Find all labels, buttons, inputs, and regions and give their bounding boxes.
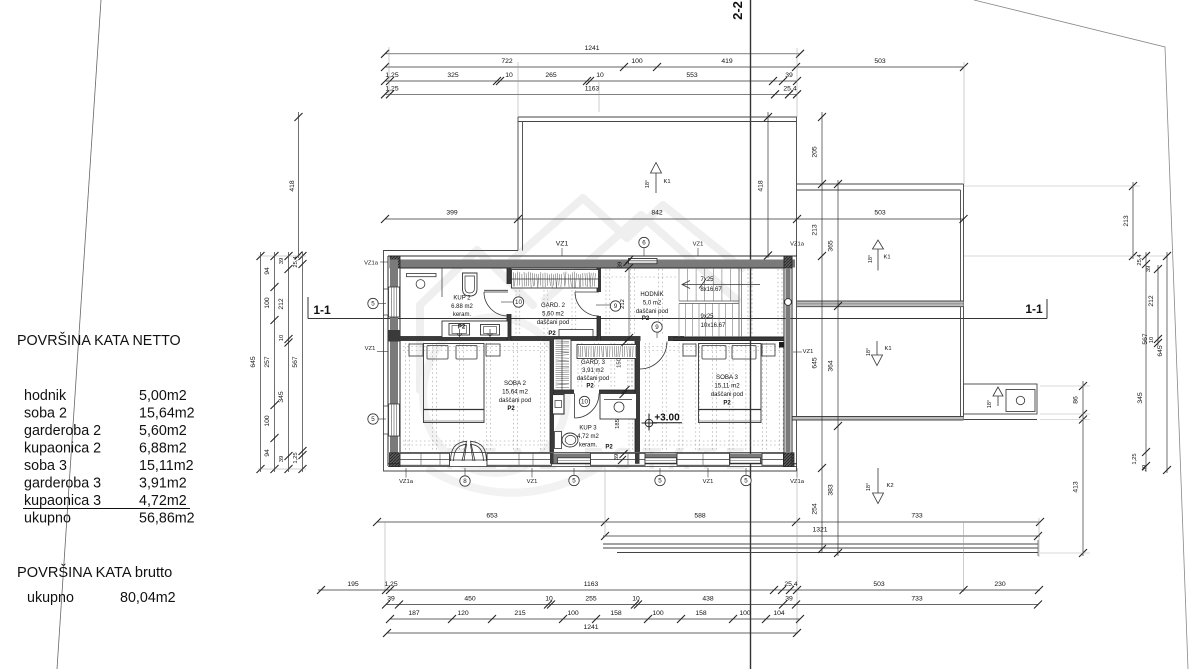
window box bottom 5 [762, 453, 784, 465]
svg-text:5,60 m2: 5,60 m2 [542, 312, 564, 318]
parcel boundary left [57, 0, 101, 669]
svg-text:SOBA 3: SOBA 3 [716, 374, 739, 381]
svg-text:K2: K2 [886, 483, 893, 489]
svg-text:25,4: 25,4 [784, 581, 797, 588]
column top-left [390, 256, 400, 268]
svg-text:keram.: keram. [453, 312, 472, 318]
svg-text:413: 413 [1073, 481, 1080, 493]
dim column left 94/100/257/100/94 [274, 252, 276, 472]
window box bottom 2 [487, 453, 552, 465]
column top-right [784, 256, 792, 268]
wall stairs/SOBA3 horizontal [673, 337, 784, 341]
door SOBA3 with arc [640, 342, 668, 370]
svg-text:15,11m2: 15,11m2 [139, 458, 194, 474]
eaves outline around house [384, 117, 797, 471]
svg-text:daščani pod: daščani pod [499, 398, 531, 404]
svg-text:P2: P2 [458, 325, 466, 331]
svg-text:VZ1a: VZ1a [790, 242, 805, 248]
svg-text:P2: P2 [586, 384, 594, 390]
svg-text:100: 100 [631, 58, 643, 65]
svg-text:588: 588 [694, 513, 706, 520]
svg-text:56,86m2: 56,86m2 [139, 511, 195, 527]
svg-text:VZ1: VZ1 [693, 242, 704, 248]
svg-text:HODNIK: HODNIK [640, 292, 663, 298]
svg-text:1163: 1163 [584, 581, 599, 588]
svg-text:187: 187 [408, 610, 420, 617]
svg-text:KUP 2: KUP 2 [453, 296, 471, 302]
dim 39 top wall [624, 258, 632, 266]
svg-text:39: 39 [279, 258, 285, 264]
svg-text:POVRŠINA KATA brutto: POVRŠINA KATA brutto [17, 564, 172, 581]
svg-text:86: 86 [1073, 396, 1080, 404]
svg-text:VZ1a: VZ1a [399, 479, 414, 485]
wall GARD2/HODNIK to stairs horizontal [513, 337, 641, 341]
window strip bottom 1 [558, 458, 591, 463]
circled 5 window left lower [368, 414, 378, 424]
window top wall [629, 259, 658, 264]
svg-text:15,64 m2: 15,64 m2 [502, 389, 528, 396]
svg-text:418: 418 [758, 180, 765, 192]
svg-text:10: 10 [545, 596, 553, 603]
svg-text:1163: 1163 [585, 85, 600, 92]
svg-text:39: 39 [618, 262, 624, 268]
svg-text:P2: P2 [605, 445, 613, 451]
svg-text:GARD. 2: GARD. 2 [541, 303, 566, 309]
toilet KUP2 [463, 273, 478, 296]
svg-text:3,91m2: 3,91m2 [139, 476, 187, 492]
svg-text:213: 213 [1123, 215, 1130, 227]
circled 9 door GARD2 [610, 301, 620, 311]
floor board dashed lines [403, 269, 783, 451]
svg-text:10: 10 [1149, 337, 1155, 343]
svg-text:4,72 m2: 4,72 m2 [577, 434, 599, 440]
svg-text:645: 645 [250, 356, 257, 368]
dim 418 right [767, 112, 769, 258]
door KUP2 with arc [484, 289, 508, 291]
wall stub D at bottom wall [550, 453, 554, 464]
svg-text:18°: 18° [987, 400, 993, 408]
svg-text:9x25: 9x25 [700, 314, 714, 320]
svg-text:POVRŠINA KATA NETTO: POVRŠINA KATA NETTO [17, 332, 181, 349]
bottom dim row C 187/120/215/... [390, 618, 800, 620]
svg-text:6,88m2: 6,88m2 [139, 441, 187, 457]
section line 1-1 [308, 318, 1047, 320]
svg-text:VZ1: VZ1 [527, 479, 538, 485]
underline kupaonica 3 [23, 508, 190, 510]
svg-text:1321: 1321 [812, 527, 827, 534]
svg-text:6: 6 [642, 240, 646, 247]
svg-text:10: 10 [505, 72, 513, 79]
svg-text:7x25: 7x25 [700, 277, 714, 283]
svg-text:653: 653 [486, 513, 498, 520]
svg-text:VZ1: VZ1 [365, 346, 376, 352]
svg-text:2-2: 2-2 [730, 1, 745, 20]
svg-text:345: 345 [278, 391, 285, 403]
svg-text:80,04m2: 80,04m2 [120, 590, 176, 606]
bottom dim row D 1241 [387, 632, 797, 634]
column left middle [388, 330, 400, 342]
svg-text:ukupno: ukupno [27, 590, 74, 606]
svg-text:1-1: 1-1 [313, 303, 331, 317]
svg-text:25,4: 25,4 [783, 85, 796, 92]
dim 185 kup3 [620, 390, 628, 398]
svg-text:645: 645 [812, 357, 819, 369]
svg-text:8: 8 [463, 478, 467, 485]
wall KUP2/SOBA2 horizontal [400, 337, 513, 341]
svg-text:garderoba 2: garderoba 2 [24, 423, 101, 439]
svg-text:567: 567 [1142, 333, 1149, 345]
svg-text:438: 438 [702, 596, 714, 603]
vanity counter KUP2 [442, 321, 508, 338]
svg-text:1241: 1241 [584, 45, 599, 52]
dashed lines right of stairs [748, 269, 782, 336]
svg-text:39: 39 [387, 596, 395, 603]
svg-text:daščani pod: daščani pod [711, 392, 743, 398]
svg-text:KUP 3: KUP 3 [579, 426, 597, 432]
svg-text:364: 364 [828, 360, 835, 372]
column bottom-right [784, 453, 795, 467]
wall SOBA2|GARD3 vertical [550, 341, 554, 452]
roof arrow K1 right-up [873, 240, 884, 271]
svg-text:212: 212 [620, 299, 626, 309]
dim 150 gard3 [622, 338, 630, 346]
dim 399/842/503 above plan [385, 218, 964, 220]
dim column left 645 [260, 252, 262, 472]
svg-text:18°: 18° [868, 255, 874, 263]
dim 212 hodnik [628, 268, 630, 338]
wall top [390, 260, 795, 268]
shelf rect GARD2 [559, 330, 593, 337]
svg-text:VZ1a: VZ1a [364, 261, 379, 267]
svg-text:4,72m2: 4,72m2 [139, 493, 187, 509]
roof outline upper-left rectangle [518, 117, 797, 251]
svg-text:1,25: 1,25 [385, 85, 398, 92]
svg-text:SOBA 2: SOBA 2 [504, 380, 527, 387]
svg-text:1,25: 1,25 [385, 72, 398, 79]
svg-text:18°: 18° [866, 348, 872, 356]
svg-text:10: 10 [596, 72, 604, 79]
dim far right column C [1166, 252, 1168, 473]
svg-text:8x16.67: 8x16.67 [700, 287, 722, 293]
door opening balcony [450, 453, 488, 466]
svg-text:VZ1: VZ1 [803, 349, 814, 355]
svg-text:230: 230 [994, 581, 1006, 588]
bottom dim row B 450/255/438/733 [386, 604, 1038, 606]
svg-text:K1: K1 [663, 179, 670, 185]
top dim row 1241 [385, 53, 800, 55]
wall KUP2|GARD2 vertical [507, 268, 511, 284]
dim 653/588/733 [377, 521, 1040, 523]
svg-text:P2: P2 [723, 401, 731, 407]
toilet KUP3 [555, 432, 562, 449]
stair direction arrow [682, 284, 760, 286]
bottom dim row A 195/1163/503/230 [318, 589, 1040, 591]
svg-text:daščani pod: daščani pod [636, 309, 668, 315]
svg-text:soba 3: soba 3 [24, 458, 67, 474]
window strip bottom 3 [730, 458, 761, 463]
wardrobe GARD3 vertical hatch [554, 339, 572, 390]
svg-text:39: 39 [1142, 465, 1148, 471]
svg-text:100: 100 [567, 610, 579, 617]
roof ridge band right [797, 301, 964, 307]
svg-text:VZ1: VZ1 [556, 241, 569, 248]
svg-text:100: 100 [739, 610, 751, 617]
window W1 left wall [389, 287, 400, 317]
svg-text:5,00m2: 5,00m2 [139, 388, 187, 404]
section line 2-2 [750, 0, 752, 669]
svg-text:842: 842 [651, 210, 663, 217]
window W2 left wall [389, 404, 400, 436]
svg-text:5,60m2: 5,60m2 [139, 423, 187, 439]
svg-text:daščani pod: daščani pod [577, 376, 609, 382]
circled 10 door KUP2 [513, 297, 523, 307]
window box bottom 1 [400, 453, 450, 465]
staircase [679, 268, 739, 337]
svg-text:daščani pod: daščani pod [537, 320, 569, 326]
svg-text:10: 10 [515, 299, 522, 306]
svg-text:255: 255 [585, 596, 597, 603]
dim column right x822 [821, 112, 823, 553]
svg-text:212: 212 [1148, 295, 1155, 307]
svg-text:VZ1: VZ1 [703, 479, 714, 485]
svg-text:keram.: keram. [579, 443, 598, 449]
svg-text:450: 450 [464, 596, 476, 603]
nightstand SOBA3 left [683, 344, 696, 356]
svg-text:10x16.67: 10x16.67 [701, 323, 726, 329]
svg-text:150: 150 [617, 358, 623, 368]
dim 86 and 413 [1082, 381, 1084, 556]
svg-text:158: 158 [695, 610, 707, 617]
svg-text:6.88 m2: 6.88 m2 [451, 304, 473, 310]
box on right wall [779, 342, 785, 348]
wall GARD3|KUP3 horizontal [554, 390, 575, 394]
svg-text:VZ1a: VZ1a [790, 479, 805, 485]
svg-text:733: 733 [911, 596, 923, 603]
top dim row 325/265/553 [385, 80, 797, 82]
washer cabinet KUP3 [553, 395, 565, 415]
svg-text:39: 39 [279, 456, 285, 462]
svg-text:1,25: 1,25 [293, 452, 299, 463]
dim column left 567 [302, 252, 304, 472]
svg-text:645: 645 [1157, 345, 1164, 357]
roof arrow K1 right-down [872, 341, 883, 366]
circled 9 door SOBA3 [652, 322, 662, 332]
svg-text:365: 365 [828, 240, 835, 252]
svg-text:185: 185 [615, 419, 621, 429]
svg-text:3,91 m2: 3,91 m2 [582, 368, 604, 374]
watermark house logo [420, 198, 742, 493]
svg-text:9: 9 [655, 324, 659, 331]
svg-text:P2: P2 [507, 406, 515, 412]
svg-text:553: 553 [686, 72, 698, 79]
svg-text:5: 5 [371, 301, 375, 308]
svg-text:25,4: 25,4 [293, 256, 299, 268]
svg-text:5,0 m2: 5,0 m2 [643, 301, 662, 307]
wall stub F at bottom wall [635, 453, 640, 464]
door GARD2 with arc [575, 291, 599, 293]
svg-text:1,25: 1,25 [384, 581, 397, 588]
dim 418 left [298, 112, 300, 258]
roof arrow K1 upper-left [651, 163, 662, 194]
nightstand SOBA3 right [762, 344, 775, 356]
dim column left 39/212/345 [288, 252, 290, 472]
svg-text:5: 5 [572, 478, 576, 485]
top extension lines [388, 47, 390, 96]
wall right [786, 268, 791, 452]
svg-text:39: 39 [1146, 266, 1152, 272]
svg-text:265: 265 [545, 72, 557, 79]
left extension stubs [258, 255, 306, 257]
wall left [390, 260, 398, 463]
dim far right column B [1157, 265, 1159, 346]
nightstand SOBA2 right [486, 344, 500, 356]
svg-text:25,4: 25,4 [1137, 254, 1143, 266]
dim far right 213 [1132, 182, 1134, 259]
svg-text:100: 100 [652, 610, 664, 617]
svg-text:soba 2: soba 2 [24, 406, 67, 422]
svg-text:1,25: 1,25 [1132, 453, 1138, 464]
dormer box bottom right [964, 384, 1038, 414]
circled 5 window left upper [368, 298, 378, 308]
svg-text:10: 10 [279, 335, 285, 341]
svg-text:158: 158 [610, 610, 622, 617]
svg-text:ukupno: ukupno [24, 511, 71, 527]
svg-text:15,11 m2: 15,11 m2 [714, 383, 740, 390]
window box bottom 4 [677, 453, 730, 465]
svg-text:18°: 18° [645, 180, 651, 188]
svg-text:418: 418 [289, 180, 296, 192]
svg-text:GARD. 3: GARD. 3 [581, 360, 606, 366]
circled 6 top wall [639, 237, 649, 247]
svg-text:383: 383 [828, 484, 835, 496]
svg-text:1-1: 1-1 [1025, 302, 1043, 316]
window strip bottom 2 [645, 458, 677, 463]
window box bottom 3 [591, 453, 646, 465]
svg-text:5: 5 [658, 478, 662, 485]
svg-text:5: 5 [744, 478, 748, 485]
svg-text:18°: 18° [866, 483, 872, 491]
circled 10 door KUP3 [579, 396, 589, 406]
svg-text:+3.00: +3.00 [654, 413, 680, 424]
roof right upper rectangle [797, 184, 964, 420]
svg-text:722: 722 [501, 58, 513, 65]
svg-text:120: 120 [457, 610, 469, 617]
svg-text:10: 10 [581, 399, 588, 406]
dim column right x838 [837, 180, 839, 556]
top dim row 722/100/419/503 [385, 66, 964, 68]
svg-text:kupaonica 2: kupaonica 2 [24, 441, 101, 457]
svg-text:100: 100 [264, 415, 271, 427]
svg-text:399: 399 [446, 210, 458, 217]
table POVRSINA KATA NETTO [17, 332, 195, 606]
svg-text:kupaonica 3: kupaonica 3 [24, 493, 101, 509]
svg-text:39: 39 [785, 72, 793, 79]
hinge circle right wall [785, 299, 792, 306]
svg-text:104: 104 [773, 610, 785, 617]
svg-text:567: 567 [292, 356, 299, 368]
svg-text:733: 733 [911, 513, 923, 520]
svg-text:503: 503 [873, 581, 885, 588]
roof arrow K2 bottom-right [873, 468, 884, 504]
parcel boundary right [974, 0, 1188, 669]
svg-text:503: 503 [874, 58, 886, 65]
nightstand SOBA2 left [409, 344, 423, 356]
svg-text:K1: K1 [883, 255, 890, 261]
svg-text:15,64m2: 15,64m2 [139, 406, 195, 422]
door KUP3 with arc [574, 394, 576, 419]
lower eaves lines bottom right [603, 543, 1038, 545]
svg-text:325: 325 [447, 72, 459, 79]
bottom extension lines [604, 468, 606, 537]
svg-text:garderoba 3: garderoba 3 [24, 476, 101, 492]
svg-text:100: 100 [264, 297, 271, 309]
svg-text:419: 419 [721, 58, 733, 65]
svg-text:254: 254 [812, 503, 819, 515]
svg-text:345: 345 [1137, 392, 1144, 404]
wall bottom [400, 454, 784, 464]
svg-text:215: 215 [514, 610, 526, 617]
dormer slope arrow 18deg [993, 387, 1003, 406]
svg-text:503: 503 [874, 210, 886, 217]
wardrobe GARD3 top hatch [577, 345, 637, 359]
balcony double door leaves [451, 441, 487, 461]
svg-text:195: 195 [347, 581, 359, 588]
svg-text:P2: P2 [642, 316, 650, 322]
roof right lower rectangle bottom edge [792, 417, 964, 420]
svg-text:K1: K1 [884, 346, 891, 352]
bed SOBA2 [424, 344, 485, 423]
svg-text:1241: 1241 [583, 624, 598, 631]
svg-text:hodnik: hodnik [24, 388, 67, 404]
svg-text:94: 94 [264, 267, 271, 275]
svg-text:205: 205 [812, 146, 819, 158]
washbasin KUP2 [407, 274, 437, 277]
svg-text:39: 39 [614, 454, 620, 460]
wall GARD3-KUP3|SOBA3 vertical [635, 341, 640, 452]
wall GARD2|HODNIK vertical [597, 268, 601, 292]
dim 39 bottom wall [618, 456, 626, 464]
column bottom-left [390, 453, 401, 467]
svg-text:10: 10 [632, 596, 640, 603]
dim 1321 [603, 535, 1040, 537]
svg-text:212: 212 [278, 298, 285, 310]
svg-text:94: 94 [264, 449, 271, 457]
bed SOBA3 [699, 344, 762, 423]
svg-text:257: 257 [264, 356, 271, 368]
svg-text:5: 5 [371, 416, 375, 423]
svg-text:213: 213 [812, 224, 819, 236]
vanity KUP3 [600, 394, 637, 420]
level mark +3.00 [642, 414, 658, 431]
svg-text:P2: P2 [548, 331, 556, 337]
top dim row 1163 [385, 93, 797, 95]
svg-text:9: 9 [614, 303, 618, 310]
dim far right column A [1145, 252, 1147, 472]
svg-text:39: 39 [785, 596, 793, 603]
wardrobe GARD2 hatch [512, 270, 599, 289]
